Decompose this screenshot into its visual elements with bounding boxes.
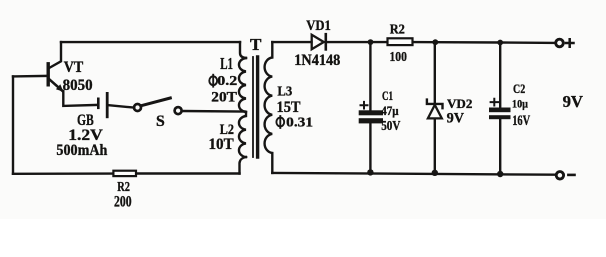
- transformer secondary winding L3: [265, 42, 273, 173]
- svg-text:15T: 15T: [277, 99, 301, 116]
- label plus C1: [361, 102, 368, 109]
- svg-text:10T: 10T: [209, 136, 235, 153]
- label plus C2: [491, 99, 498, 106]
- capacitor C2 branch wire: [499, 43, 501, 108]
- wire top primary rail: [61, 41, 240, 43]
- transistor VT 8050: [47, 64, 50, 85]
- svg-text:C2: C2: [513, 82, 525, 96]
- capacitor C2: [489, 108, 511, 113]
- resistor R2 200: [113, 171, 136, 176]
- svg-text:S: S: [156, 113, 165, 130]
- wire diode to node: [328, 41, 370, 43]
- svg-text:8050: 8050: [63, 77, 93, 94]
- resistor R2 100: [388, 38, 413, 45]
- svg-text:L3: L3: [277, 83, 292, 98]
- capacitor C1 branch wire: [369, 42, 371, 110]
- svg-text:VD1: VD1: [306, 18, 331, 34]
- svg-text:VT: VT: [64, 59, 84, 76]
- svg-text:16V: 16V: [512, 113, 530, 129]
- node junction bottom VD2: [432, 170, 438, 176]
- wire secondary top to diode: [272, 41, 311, 43]
- wire R2 to node: [413, 41, 436, 44]
- wire emitter lead: [63, 91, 97, 106]
- wire node to node: [435, 41, 500, 44]
- svg-text:0.2: 0.2: [217, 74, 237, 89]
- battery GB: [97, 99, 100, 108]
- svg-text:47µ: 47µ: [381, 103, 399, 118]
- svg-text:VD2: VD2: [447, 97, 472, 111]
- label phi 0.31: [276, 118, 284, 127]
- transformer T primary winding L1: [240, 42, 246, 58]
- wire switch to tap: [182, 110, 245, 113]
- svg-text:C1: C1: [382, 88, 393, 103]
- svg-text:R2: R2: [390, 21, 405, 36]
- wire battery to switch: [109, 105, 135, 107]
- svg-text:R2: R2: [117, 179, 130, 194]
- wire base lead: [13, 75, 47, 78]
- zener diode VD2: [427, 100, 443, 109]
- transformer T primary winding L2: [239, 112, 246, 157]
- diode VD1 1N4148: [312, 35, 324, 49]
- terminal minus: [556, 172, 563, 179]
- wire bottom left rail: [13, 172, 113, 175]
- svg-text:T: T: [250, 35, 261, 54]
- node junction bottom C2: [497, 171, 503, 177]
- svg-text:100: 100: [390, 49, 407, 64]
- transformer core: [252, 57, 254, 157]
- wire bottom right rail: [272, 173, 556, 175]
- wire left vertical: [12, 77, 14, 174]
- zener diode VD2 branch wire: [434, 42, 436, 173]
- node junction bottom C1: [367, 169, 373, 175]
- svg-text:10µ: 10µ: [512, 96, 528, 110]
- terminal plus: [556, 39, 564, 47]
- svg-text:0.31: 0.31: [286, 115, 313, 130]
- svg-text:1N4148: 1N4148: [294, 52, 340, 69]
- switch S: [134, 104, 141, 111]
- node junction top C1: [368, 39, 374, 45]
- svg-text:500mAh: 500mAh: [56, 142, 107, 159]
- svg-text:9V: 9V: [563, 92, 584, 111]
- wire node to plus terminal: [500, 41, 555, 44]
- label phi 0.2: [209, 76, 217, 85]
- svg-text:20T: 20T: [211, 90, 237, 106]
- svg-text:50V: 50V: [381, 118, 400, 133]
- node junction top VD2: [432, 39, 438, 45]
- wire collector lead: [50, 42, 62, 68]
- capacitor C1: [359, 110, 383, 115]
- svg-text:9V: 9V: [447, 110, 465, 126]
- node junction top C2: [497, 40, 503, 46]
- svg-text:200: 200: [114, 193, 132, 210]
- svg-text:L1: L1: [220, 54, 233, 73]
- wire node to R2: [371, 41, 388, 43]
